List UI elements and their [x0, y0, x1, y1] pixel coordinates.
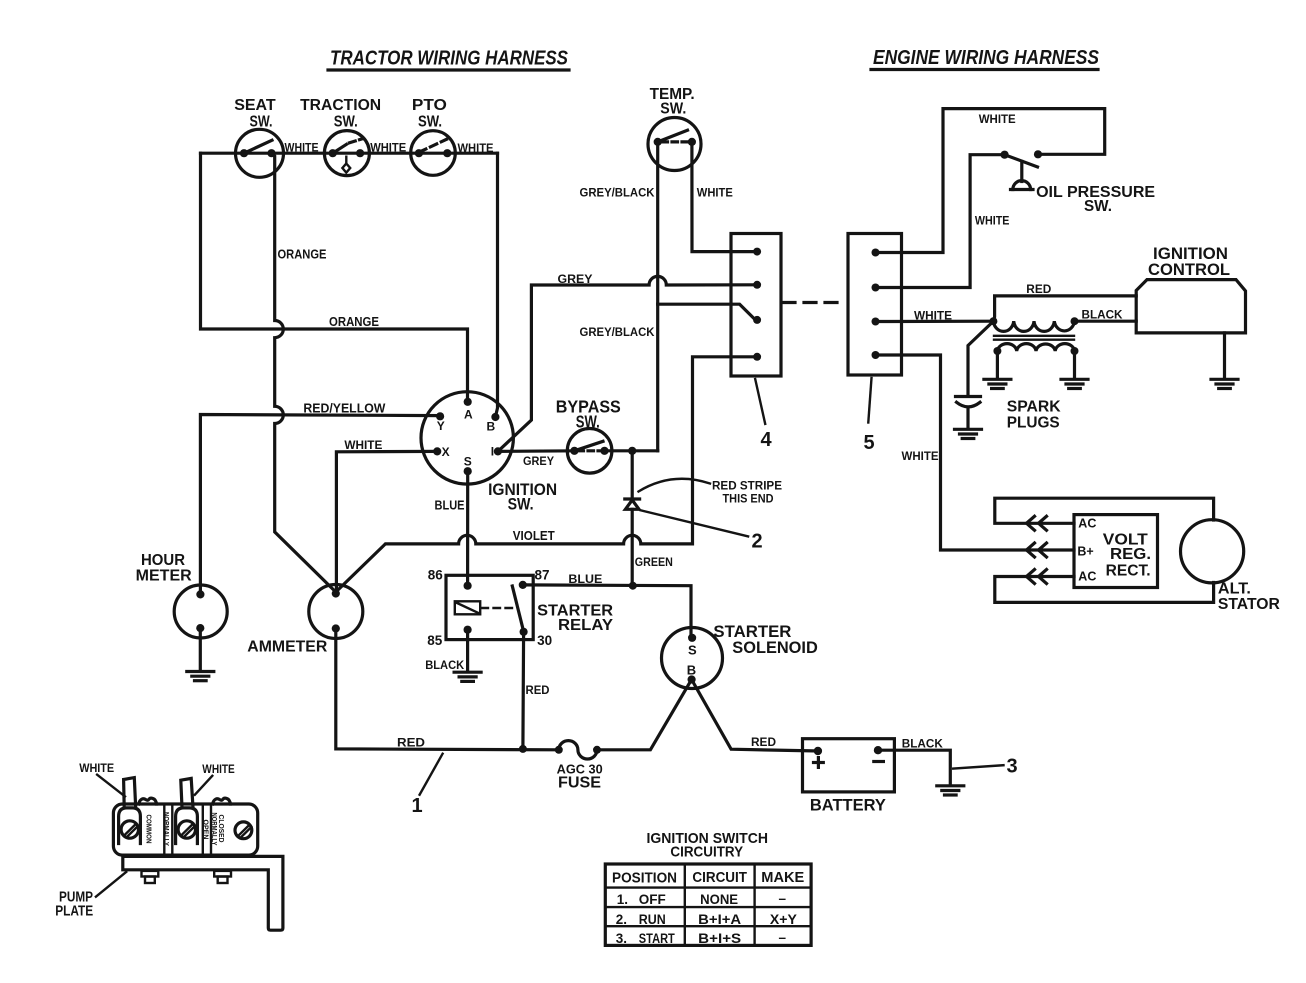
ignition coil T1 primary winding — [993, 321, 1074, 331]
svg-text:RUN: RUN — [639, 912, 666, 927]
switch TEMP SW. — [648, 86, 701, 171]
leader white right — [195, 776, 213, 795]
svg-text:OPEN: OPEN — [202, 820, 209, 840]
svg-text:RED: RED — [397, 736, 425, 750]
svg-text:AC: AC — [1078, 516, 1096, 530]
wire WHITE temp sw right to connector4 pin1 — [692, 142, 754, 252]
wire PTO to ignition B vertical — [495, 153, 497, 417]
svg-text:87: 87 — [535, 568, 550, 583]
svg-text:3.: 3. — [616, 931, 627, 946]
wire relay 85 to ground — [466, 630, 469, 672]
svg-text:MAKE: MAKE — [761, 870, 804, 886]
svg-text:CLOSED: CLOSED — [217, 815, 224, 843]
ground ignition control — [1211, 379, 1238, 388]
svg-text:CONTROL: CONTROL — [1148, 260, 1230, 279]
wire BLACK coil to ignition control — [1075, 320, 1137, 323]
switch PTO SW. — [411, 97, 456, 175]
wire BLACK battery negative to ground — [878, 750, 950, 785]
svg-text:SW.: SW. — [660, 101, 686, 118]
svg-text:B+I+A: B+I+A — [698, 912, 741, 927]
junction dot coil primary left — [989, 317, 997, 325]
svg-text:WHITE: WHITE — [285, 141, 319, 155]
screw 1 — [121, 821, 138, 838]
wire AC top loop to alt stator — [995, 498, 1214, 523]
svg-text:RED: RED — [526, 683, 550, 697]
wire ORANGE from seat right terminal down to ammeter (with hops) — [272, 153, 336, 592]
svg-text:PLUGS: PLUGS — [1007, 415, 1060, 432]
meter AMMETER — [247, 585, 362, 656]
switch BYPASS SW. — [556, 397, 621, 474]
svg-text:BATTERY: BATTERY — [810, 796, 887, 815]
svg-text:NORMALLY: NORMALLY — [210, 813, 217, 846]
svg-text:S: S — [464, 455, 472, 469]
svg-text:30: 30 — [537, 633, 552, 648]
svg-text:S: S — [688, 643, 697, 658]
alternator stator circle — [1181, 520, 1280, 613]
svg-text:B: B — [687, 663, 696, 678]
svg-text:WHITE: WHITE — [79, 761, 114, 775]
svg-text:–: – — [779, 891, 787, 906]
callout 5 — [864, 378, 875, 454]
callout 4 — [755, 379, 772, 451]
relay STARTER RELAY K1 — [427, 568, 613, 648]
wire RED ammeter bottom to fuse bus — [336, 629, 559, 750]
svg-text:BLUE: BLUE — [568, 572, 602, 586]
diode CR1 red-stripe — [625, 499, 640, 509]
svg-text:VIOLET: VIOLET — [513, 529, 555, 543]
ignition switch circle U-ign — [421, 392, 557, 514]
bolt left — [142, 871, 159, 883]
svg-text:BLACK: BLACK — [1082, 308, 1123, 322]
svg-text:SW.: SW. — [418, 114, 442, 131]
svg-text:B+I+S: B+I+S — [698, 931, 741, 946]
svg-text:WHITE: WHITE — [202, 762, 235, 776]
wire hour meter to ground — [199, 628, 202, 671]
arrows chevrons B+ — [1027, 543, 1047, 557]
svg-text:SPARK: SPARK — [1007, 399, 1061, 416]
svg-text:WHITE: WHITE — [902, 449, 939, 463]
svg-text:FUSE: FUSE — [558, 775, 601, 792]
wire VIOLET ammeter to connector4 pin4 (hops over BLUE and GREEN) — [336, 357, 754, 592]
wire hour meter riser + RED/YELLOW to ignition Y — [200, 415, 440, 595]
svg-text:NONE: NONE — [700, 892, 738, 907]
switch OIL PRESSURE SW. — [1001, 150, 1156, 215]
svg-text:WHITE: WHITE — [370, 141, 406, 155]
bolt right — [214, 871, 231, 883]
wire WHITE ignition X to ammeter — [336, 451, 437, 591]
svg-text:BLUE: BLUE — [435, 499, 465, 513]
svg-text:CIRCUITRY: CIRCUITRY — [670, 844, 743, 861]
screw 3 — [235, 822, 252, 839]
svg-text:1.: 1. — [617, 892, 628, 907]
title ENGINE WIRING HARNESS — [871, 47, 1100, 70]
separator lines 2 — [202, 804, 204, 855]
svg-text:ENGINE WIRING HARNESS: ENGINE WIRING HARNESS — [873, 47, 1100, 69]
wire WHITE connector5 pin4 down to volt reg B+ — [876, 355, 1075, 550]
switch SEAT SW. — [234, 97, 283, 177]
ground battery — [937, 786, 964, 795]
svg-text:SW.: SW. — [250, 114, 273, 131]
ground hour meter — [187, 672, 214, 681]
dot secondary left — [993, 347, 1001, 355]
svg-text:SW.: SW. — [1084, 198, 1112, 215]
svg-text:SOLENOID: SOLENOID — [732, 639, 818, 657]
wire stub left — [124, 778, 136, 808]
svg-text:ALT.: ALT. — [1218, 581, 1251, 598]
svg-text:GREY: GREY — [523, 454, 554, 468]
spade terminal 2 — [176, 808, 198, 844]
svg-text:START: START — [639, 931, 676, 946]
svg-text:1: 1 — [412, 795, 423, 817]
svg-text:TRACTION: TRACTION — [300, 97, 381, 114]
svg-text:RED STRIPE: RED STRIPE — [712, 479, 782, 493]
svg-text:WHITE: WHITE — [458, 141, 494, 155]
wire WHITE oil pressure sw left down to connector5 pin2 — [876, 155, 1005, 288]
dot coil primary right — [1071, 317, 1079, 325]
dashed link connector4 to connector5 — [783, 301, 846, 304]
svg-text:RELAY: RELAY — [558, 617, 613, 634]
wire bypass to grey/black riser and down to diode junction — [605, 449, 658, 452]
svg-text:A: A — [464, 407, 473, 421]
svg-text:Y: Y — [437, 419, 445, 433]
svg-text:REG.: REG. — [1110, 546, 1151, 563]
pump plate assembly — [55, 761, 283, 930]
wire RED fuse to solenoid B left leg — [597, 680, 692, 750]
svg-text:SW.: SW. — [334, 114, 358, 131]
svg-text:B: B — [487, 419, 496, 433]
svg-text:RED: RED — [1026, 282, 1051, 296]
svg-text:2.: 2. — [616, 912, 627, 927]
arrows chevrons AC top — [1027, 516, 1047, 530]
svg-text:WHITE: WHITE — [914, 309, 952, 323]
svg-text:X: X — [442, 445, 450, 459]
ground capacitor — [955, 429, 982, 438]
wire GREEN bypass junction down through diode to blue junction — [631, 451, 634, 498]
battery BT1 — [803, 739, 895, 815]
title TRACTOR WIRING HARNESS — [328, 48, 569, 71]
terminal block body — [113, 804, 257, 855]
svg-text:B+: B+ — [1077, 545, 1093, 559]
wire stub right — [181, 778, 193, 807]
connector 5 — [848, 234, 902, 376]
svg-text:CIRCUIT: CIRCUIT — [692, 870, 747, 886]
wire ignition control to ground — [1223, 333, 1226, 379]
svg-text:PLATE: PLATE — [55, 903, 93, 920]
svg-text:GREY/BLACK: GREY/BLACK — [580, 325, 655, 339]
svg-text:WHITE: WHITE — [975, 214, 1010, 228]
wire BLUE ignition S to relay 86 — [466, 471, 469, 586]
callout 1 — [412, 754, 443, 817]
wire WHITE connector5 pin1 up to oil pressure sw right — [876, 109, 1105, 253]
svg-text:I: I — [491, 444, 494, 458]
ground spark plug left — [984, 379, 1011, 388]
svg-text:WHITE: WHITE — [697, 186, 733, 200]
svg-text:86: 86 — [428, 568, 444, 583]
leader pump plate — [96, 872, 126, 897]
svg-text:SW.: SW. — [508, 495, 534, 514]
ignition coil T1 core — [994, 336, 1074, 340]
wire RED solenoid B right leg to battery — [692, 680, 818, 752]
svg-text:WHITE: WHITE — [979, 112, 1016, 126]
wire RED coil junction to ignition control — [993, 296, 1136, 321]
svg-text:ORANGE: ORANGE — [278, 248, 327, 262]
svg-text:GREY/BLACK: GREY/BLACK — [580, 186, 655, 200]
svg-text:GREY: GREY — [558, 272, 593, 286]
meter HOUR METER — [136, 552, 228, 638]
pump mounting plate L-bracket — [123, 856, 283, 930]
svg-text:NORMALLY: NORMALLY — [162, 812, 169, 846]
wire branch to connector4 pin3 — [658, 304, 755, 319]
switch TRACTION SW. — [300, 97, 381, 176]
svg-text:4: 4 — [761, 429, 773, 451]
svg-text:5: 5 — [864, 432, 875, 454]
svg-text:THIS END: THIS END — [723, 492, 774, 506]
screw 2 — [178, 821, 195, 838]
svg-text:–: – — [779, 930, 787, 945]
svg-text:X+Y: X+Y — [770, 912, 797, 927]
svg-text:SEAT: SEAT — [234, 97, 276, 114]
svg-text:GREEN: GREEN — [635, 555, 673, 569]
svg-text:TRACTOR WIRING HARNESS: TRACTOR WIRING HARNESS — [330, 48, 569, 70]
svg-text:BLACK: BLACK — [425, 658, 464, 672]
svg-text:WHITE: WHITE — [344, 438, 382, 452]
svg-text:SW.: SW. — [576, 412, 600, 432]
separator lines 1 — [163, 804, 165, 855]
wire GREY ignition I to bypass switch — [498, 449, 575, 453]
fuse AGC 30 — [555, 741, 603, 792]
svg-text:AMMETER: AMMETER — [247, 639, 327, 656]
wire RED relay 30 down to red bus — [521, 632, 525, 749]
svg-text:PTO: PTO — [412, 97, 447, 114]
svg-text:OFF: OFF — [639, 892, 666, 907]
connector 4 — [731, 234, 781, 377]
leader white left — [97, 775, 125, 797]
wire seat-left vertical + ORANGE horizontal to ignition A — [201, 153, 468, 402]
junction dot bypass-green — [628, 447, 636, 455]
wire WHITE connector5 pin3 to coil junction — [876, 320, 994, 323]
svg-text:METER: METER — [136, 568, 192, 585]
svg-text:3: 3 — [1007, 756, 1018, 778]
svg-text:BLACK: BLACK — [902, 737, 943, 751]
svg-text:COMMON: COMMON — [145, 815, 154, 844]
ground spark plug right — [1061, 379, 1088, 388]
svg-text:POSITION: POSITION — [612, 871, 677, 887]
junction dot green-blue — [629, 582, 637, 590]
svg-text:85: 85 — [427, 633, 443, 648]
table IGNITION SWITCH CIRCUITRY — [605, 830, 811, 946]
svg-text:ORANGE: ORANGE — [329, 315, 379, 329]
callout leader RED STRIPE THIS END — [639, 479, 711, 492]
ignition coil T1 secondary winding — [997, 344, 1074, 351]
svg-text:RECT.: RECT. — [1106, 563, 1151, 580]
contact leaf bump right — [213, 798, 231, 804]
wire GREY ignition I up to connector4 pin2 (hop over grey/black) — [498, 276, 754, 451]
wire BLUE relay 87 to starter solenoid S — [523, 585, 691, 638]
svg-text:AC: AC — [1078, 570, 1096, 584]
callout 2 — [641, 510, 763, 552]
dot secondary right — [1071, 347, 1079, 355]
wire WHITE top bus seat-traction-pto — [201, 152, 498, 155]
junction dot red bus at relay 30 — [519, 745, 527, 753]
callout 3 — [953, 756, 1017, 778]
box IGNITION CONTROL — [1136, 244, 1245, 333]
spade terminal 1 — [119, 808, 141, 844]
wire secondary right to ground — [1073, 351, 1076, 379]
svg-text:HOUR: HOUR — [141, 552, 185, 569]
wire GREY/BLACK temp sw left down through pin3 branch to bypass junction — [656, 142, 659, 451]
wire AC bottom loop to alt stator — [995, 577, 1214, 603]
ground relay 85 — [454, 672, 481, 681]
svg-text:2: 2 — [752, 531, 763, 553]
svg-text:RED/YELLOW: RED/YELLOW — [303, 402, 385, 416]
arrows chevrons AC bottom — [1027, 570, 1047, 584]
svg-text:STATOR: STATOR — [1218, 596, 1280, 613]
box VOLT REG. RECT. — [1074, 515, 1158, 588]
solenoid STARTER SOLENOID — [662, 623, 818, 689]
capacitor C1 condenser — [956, 321, 994, 429]
contact leaf bump left — [139, 798, 157, 804]
svg-text:RED: RED — [751, 735, 776, 749]
wire secondary left to ground — [996, 351, 999, 379]
